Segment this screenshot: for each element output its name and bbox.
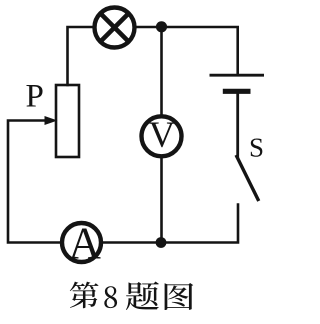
svg-text:V: V (149, 115, 176, 156)
svg-text:S: S (249, 133, 264, 163)
svg-text:P: P (26, 78, 44, 114)
svg-text:A: A (68, 218, 101, 268)
